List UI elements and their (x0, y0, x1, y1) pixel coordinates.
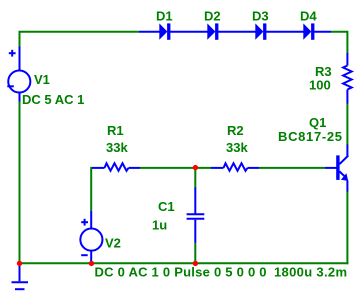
svg-text:1800u 3.2m: 1800u 3.2m (274, 265, 347, 280)
svg-text:V2: V2 (105, 236, 121, 251)
resistor R3 (343, 53, 352, 104)
diode D2 (187, 23, 235, 39)
svg-text:1u: 1u (152, 218, 167, 233)
wire R1 to node A (140, 167, 211, 169)
wire node A down to C1 (194, 168, 196, 188)
wire R2 to Q1 base (259, 167, 325, 169)
svg-text:C1: C1 (158, 199, 175, 214)
junction dot (V2 bottom) (89, 261, 94, 266)
svg-text:D4: D4 (300, 9, 317, 24)
transistor Q1 (325, 145, 348, 192)
capacitor C1 (187, 188, 205, 243)
wire left rail (V1 to ground node) (19, 101, 21, 263)
svg-text:DC 0 AC 1 0 Pulse 0 5 0 0 0: DC 0 AC 1 0 Pulse 0 5 0 0 0 (95, 265, 267, 280)
svg-text:R1: R1 (107, 123, 124, 138)
wire top-right L (D4 to R3) (331, 32, 347, 54)
svg-text:D3: D3 (252, 9, 269, 24)
voltage source V1 (7, 47, 30, 102)
svg-text:D1: D1 (156, 9, 173, 24)
wire top-left L (V1 top to D1) (20, 32, 140, 47)
resistor R2 (211, 163, 259, 171)
svg-text:R2: R2 (227, 123, 244, 138)
svg-text:33k: 33k (226, 140, 248, 155)
wire C1 to bottom rail (194, 242, 196, 263)
voltage source V2 (80, 211, 102, 264)
diode D1 (139, 23, 187, 39)
svg-text:33k: 33k (106, 140, 128, 155)
diode D4 (283, 23, 331, 39)
svg-text:V1: V1 (34, 72, 50, 87)
junction dot (C1 bottom) (193, 261, 198, 266)
svg-text:100: 100 (309, 78, 331, 93)
ground (12, 264, 29, 290)
svg-text:Q1: Q1 (309, 115, 326, 130)
wire Q1 emitter to bottom rail (346, 191, 348, 264)
svg-text:D2: D2 (204, 9, 221, 24)
junction dot (ground node) (17, 261, 22, 266)
resistor R1 (92, 163, 140, 171)
diode D3 (235, 23, 283, 39)
wire bottom rail (19, 262, 349, 264)
wire R1 left corner down to V2 (91, 168, 92, 211)
svg-text:DC 5 AC 1: DC 5 AC 1 (22, 92, 84, 107)
svg-text:BC817-25: BC817-25 (278, 129, 342, 144)
wire R3 to Q1 collector (346, 103, 348, 145)
node A dot (R1/R2/C1) (193, 165, 198, 170)
